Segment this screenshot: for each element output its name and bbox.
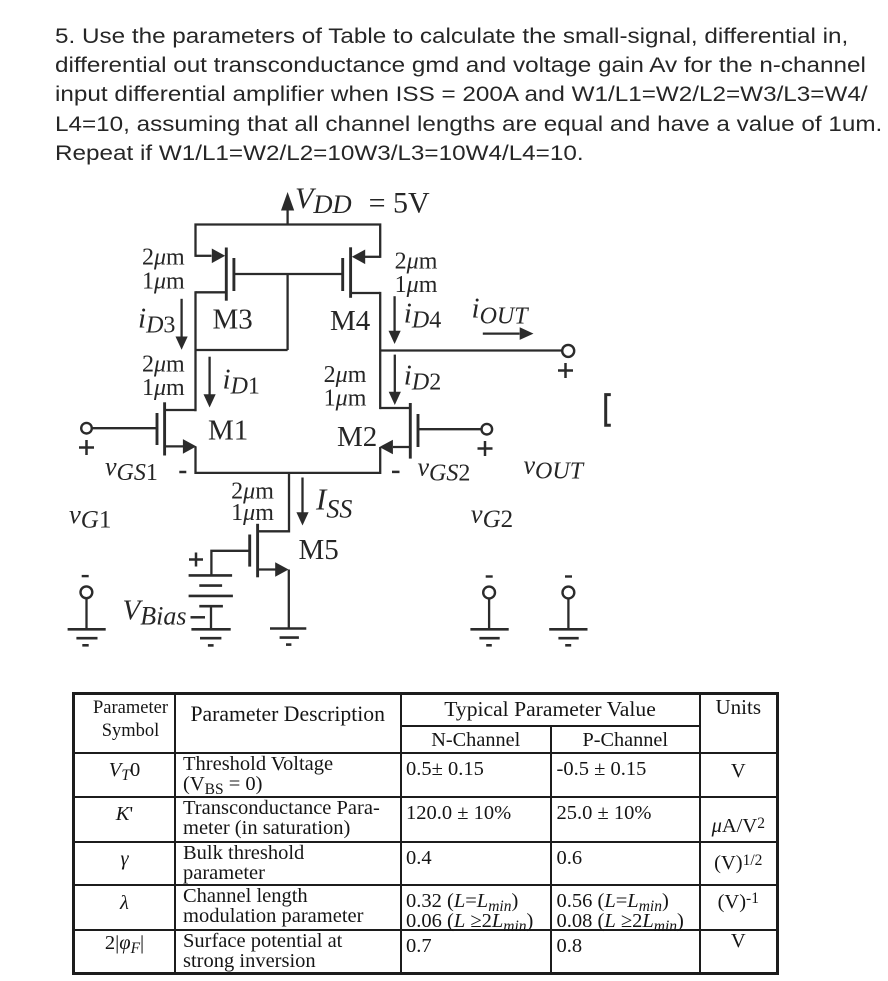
current arrow iD3 xyxy=(176,299,188,350)
svg-text:1μm: 1μm xyxy=(395,272,438,298)
svg-text:iD4: iD4 xyxy=(404,298,441,334)
svg-text:vGS2: vGS2 xyxy=(418,453,471,487)
current arrow iD2 xyxy=(389,355,401,405)
svg-text:1μm: 1μm xyxy=(231,500,274,526)
wire gate-to-drain junction xyxy=(286,274,288,350)
ground M5 source xyxy=(270,629,306,645)
terminal vGS1 input xyxy=(81,423,92,434)
ground battery xyxy=(191,629,230,645)
plus sign vOUT xyxy=(558,363,573,378)
wire source rail xyxy=(196,472,381,474)
plus sign VBias xyxy=(189,553,203,567)
wire M3 drain to M1 drain xyxy=(194,291,196,411)
current arrow iD4 xyxy=(389,296,401,344)
minus sign vGS2 xyxy=(392,471,400,474)
wire M1 gate lead xyxy=(92,427,157,429)
svg-text:VDD= 5V: VDD= 5V xyxy=(295,182,430,220)
transistor M1 xyxy=(157,402,196,474)
problem statement text xyxy=(55,22,888,168)
minus sign VBias xyxy=(191,616,206,619)
wire M4 drain to M2 drain xyxy=(379,292,381,409)
current arrow ISS xyxy=(296,478,308,526)
wire tail to M5 drain xyxy=(258,473,289,531)
current arrow iOUT xyxy=(483,327,534,340)
svg-text:vOUT: vOUT xyxy=(524,451,585,485)
power VDD arrow xyxy=(281,192,294,225)
svg-text:ISS: ISS xyxy=(315,482,352,524)
plus sign vGS1 xyxy=(79,440,94,455)
svg-text:M1: M1 xyxy=(208,415,248,447)
svg-text:vG1: vG1 xyxy=(69,499,111,534)
battery VBias xyxy=(189,575,233,629)
terminal vOUT ground xyxy=(549,577,587,646)
svg-text:VBias: VBias xyxy=(123,595,187,631)
svg-text:2μm: 2μm xyxy=(395,249,438,275)
parameter table xyxy=(72,692,779,975)
svg-text:iOUT: iOUT xyxy=(472,293,530,330)
transistor M4 xyxy=(343,247,381,297)
svg-text:iD2: iD2 xyxy=(404,360,441,396)
wire M5 gate lead xyxy=(211,551,249,575)
transistor M3 xyxy=(196,248,234,301)
svg-text:M5: M5 xyxy=(299,534,339,566)
terminal vGS2 input xyxy=(482,424,493,435)
terminal vOUT xyxy=(562,345,574,357)
svg-text:2μm: 2μm xyxy=(142,245,185,271)
svg-text:vG2: vG2 xyxy=(471,499,513,534)
svg-text:1μm: 1μm xyxy=(324,386,367,412)
svg-text:2μm: 2μm xyxy=(142,352,185,378)
wire output node xyxy=(380,349,562,351)
wire VDD top rail xyxy=(196,225,381,258)
minus sign vGS1 xyxy=(179,471,186,474)
svg-text:M4: M4 xyxy=(330,305,371,337)
current arrow iD1 xyxy=(204,357,216,408)
svg-text:iD1: iD1 xyxy=(223,364,260,400)
plus sign vGS2 xyxy=(478,441,493,456)
terminal vG1 ground xyxy=(68,576,106,645)
wire M3/M4 gate lead xyxy=(234,273,343,275)
terminal vG2 ground xyxy=(470,577,508,646)
svg-text:1μm: 1μm xyxy=(142,375,185,401)
svg-text:M2: M2 xyxy=(337,421,377,453)
svg-text:M3: M3 xyxy=(213,304,253,336)
wire M2 gate lead xyxy=(418,428,482,430)
svg-text:2μm: 2μm xyxy=(324,362,367,388)
svg-text:vGS1: vGS1 xyxy=(105,452,158,486)
wire M3 drain node xyxy=(196,349,288,351)
svg-text:iD3: iD3 xyxy=(138,303,175,339)
transistor M2 xyxy=(380,403,419,474)
svg-text:1μm: 1μm xyxy=(142,269,185,295)
bracket mark xyxy=(606,395,611,426)
transistor M5 xyxy=(250,524,289,629)
